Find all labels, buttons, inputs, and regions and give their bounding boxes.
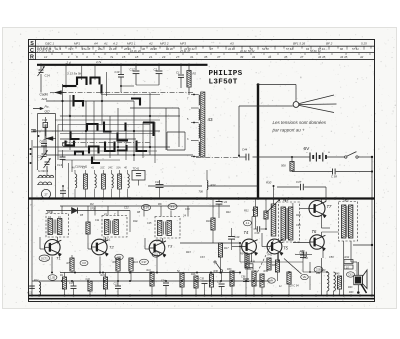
driver transformer BF1 box <box>279 198 300 242</box>
svg-text:R28: R28 <box>296 214 301 217</box>
switch contact m <box>143 123 154 137</box>
svg-text:BF1: BF1 <box>283 198 289 202</box>
on-off switch <box>345 152 374 159</box>
wire bus drop a <box>74 189 76 197</box>
wire left col <box>44 125 46 141</box>
wire BF2 to speaker <box>344 241 357 296</box>
voltage label 2.35 <box>314 267 323 273</box>
wire T5 collector <box>279 241 283 243</box>
resistor R40 <box>321 269 329 291</box>
coil S OSC1 label <box>38 169 49 173</box>
wire bus feeder 1 <box>66 65 95 88</box>
svg-text:R14: R14 <box>134 261 139 264</box>
svg-text:A3: A3 <box>229 41 234 45</box>
svg-text:8.: 8. <box>76 55 79 59</box>
junction dots left rail <box>30 135 40 164</box>
svg-text:PHILIPS: PHILIPS <box>209 70 243 78</box>
svg-text:C 24: C 24 <box>222 200 228 204</box>
resistor R37 <box>272 253 280 282</box>
svg-text:C 58: C 58 <box>331 175 337 179</box>
resistor 506 <box>281 156 294 172</box>
transistor T6 <box>310 229 326 251</box>
voltage label t2b <box>80 260 88 265</box>
label R8 <box>137 211 141 214</box>
svg-text:MF2 1: MF2 1 <box>127 41 136 45</box>
svg-text:R43: R43 <box>348 286 353 289</box>
svg-text:57 61: 57 61 <box>286 47 293 51</box>
svg-text:C49: C49 <box>235 235 240 239</box>
capacitor C19 <box>115 65 135 93</box>
capacitor C15 <box>69 281 77 296</box>
svg-text:C14: C14 <box>45 74 51 78</box>
label C22 <box>124 207 129 210</box>
svg-text:7a 7,: 7a 7, <box>68 47 74 51</box>
resistor R2 <box>187 65 197 95</box>
svg-text:C1: C1 <box>176 71 180 75</box>
voltage label t3b <box>140 259 149 265</box>
wire x310 vertical <box>309 262 311 272</box>
wire left col2 <box>46 166 48 176</box>
svg-text:VH: VH <box>303 275 307 279</box>
signal wire upper <box>60 205 230 207</box>
row label box C <box>29 46 36 54</box>
emitter row wire <box>60 272 240 274</box>
svg-text:T5: T5 <box>283 246 289 251</box>
note line 1 <box>273 120 327 125</box>
svg-text:T4: T4 <box>244 230 250 235</box>
svg-text:Cadre: Cadre <box>40 93 49 97</box>
voltage label 3.1 <box>168 204 177 210</box>
voltage label c61 <box>347 272 355 277</box>
antenna <box>293 95 336 113</box>
resistor 10box <box>344 265 353 269</box>
header table row line 3 <box>29 59 375 61</box>
svg-text:36: 36 <box>142 47 145 51</box>
voltage label OC71 <box>39 255 49 261</box>
svg-text:C11: C11 <box>95 219 100 222</box>
switch contact o <box>124 123 126 132</box>
svg-text:39 38: 39 38 <box>150 47 157 51</box>
switch contact n <box>137 141 148 152</box>
oscillator coil pack core <box>201 92 205 157</box>
wire T6 base <box>293 242 310 244</box>
svg-text:125 C 54: 125 C 54 <box>289 285 300 288</box>
rail junction dots <box>31 294 373 296</box>
svg-text:31.: 31. <box>190 55 194 59</box>
wire BF2 secondary right <box>353 244 373 246</box>
IF transformer MF2-1 <box>102 213 127 242</box>
label T4 voltage wire <box>252 217 256 240</box>
transistor T3 <box>149 240 173 257</box>
wire T6 emitter lower <box>321 258 323 296</box>
wire left inner vertical <box>31 140 33 296</box>
svg-text:C13: C13 <box>28 292 33 295</box>
wire AGC row <box>148 185 202 187</box>
IF transformer MF2-2 <box>155 214 186 243</box>
label R23 <box>186 251 191 254</box>
wire MF2-1 top <box>108 206 118 216</box>
svg-text:24: 24 <box>182 214 186 218</box>
resistor R45 <box>335 273 342 296</box>
battery 6V <box>306 151 330 162</box>
capacitor C56c <box>295 252 312 260</box>
oscillator coil winding 3 <box>199 124 200 138</box>
wire T6 collector <box>322 232 339 237</box>
svg-text:0.9: 0.9 <box>154 253 158 257</box>
label R28 <box>296 214 301 217</box>
switch contact j <box>89 147 99 154</box>
svg-text:R: R <box>30 55 34 61</box>
svg-text:T3: T3 <box>168 244 173 249</box>
resistor R18 <box>177 270 184 296</box>
svg-text:BF2: BF2 <box>344 198 350 202</box>
label C25 <box>147 222 152 225</box>
svg-text:3 13 5a 5b: 3 13 5a 5b <box>67 72 82 76</box>
svg-text:C56: C56 <box>241 276 246 279</box>
IF transformer MF1 <box>46 210 69 237</box>
label R5 <box>80 214 84 217</box>
header row S section labels <box>45 41 367 45</box>
switch contact i <box>105 142 115 152</box>
svg-text:C50: C50 <box>329 256 334 259</box>
svg-text:R12: R12 <box>34 279 39 282</box>
capacitor C52 <box>217 281 225 296</box>
main HT rail (thick vertical) <box>257 84 259 199</box>
wire IF strip v1 <box>94 206 96 216</box>
arrow Po GO <box>33 105 50 114</box>
svg-text:C38: C38 <box>255 231 260 235</box>
svg-text:54 58: 54 58 <box>262 47 269 51</box>
svg-text:R36: R36 <box>214 270 219 273</box>
wire <box>303 271 328 273</box>
wire T4 base <box>232 246 242 248</box>
capacitor C49 <box>228 228 240 250</box>
resistor R38 box <box>245 261 256 272</box>
svg-text:C30: C30 <box>185 208 190 211</box>
label 11 C56 <box>279 285 282 288</box>
ground rail lower <box>29 298 375 300</box>
svg-text:MF3: MF3 <box>180 41 186 45</box>
label 6V <box>304 146 311 152</box>
svg-text:4A: 4A <box>72 167 75 170</box>
svg-text:R39: R39 <box>264 270 269 273</box>
svg-text:27: 27 <box>44 193 48 197</box>
svg-text:VH: VH <box>270 279 274 283</box>
oscillator coil winding 2 <box>199 109 200 120</box>
wire BF1 primary top <box>285 199 293 208</box>
svg-text:R13: R13 <box>211 183 216 187</box>
potentiometer R30 track <box>266 181 276 237</box>
svg-text:1.05: 1.05 <box>50 277 55 280</box>
voltage label t3a <box>152 252 160 257</box>
svg-text:C46: C46 <box>296 224 301 227</box>
ground rail upper <box>29 295 375 297</box>
svg-text:5.25: 5.25 <box>361 41 367 45</box>
svg-text:R10: R10 <box>133 220 138 223</box>
resistor R9 emitter T2 <box>113 258 121 281</box>
ferrite rod circled label <box>41 189 50 198</box>
svg-text:C25: C25 <box>147 222 152 225</box>
switch contact f <box>71 132 80 140</box>
resistor R12 <box>34 279 41 296</box>
svg-text:0.8: 0.8 <box>82 262 86 265</box>
wire T2 base <box>88 243 93 249</box>
svg-text:C56: C56 <box>303 256 308 260</box>
diode detector <box>46 208 130 214</box>
svg-text:5.: 5. <box>98 55 101 59</box>
capacitor C16 <box>42 117 48 136</box>
bottom wiring dots <box>61 272 263 283</box>
svg-text:0.97: 0.97 <box>142 261 147 264</box>
label R31 <box>300 250 305 253</box>
switch contact bottom <box>214 261 223 281</box>
svg-text:GO: GO <box>45 110 50 114</box>
arrow left small <box>46 137 56 141</box>
wire T3 collector <box>162 238 164 244</box>
svg-text:44 46: 44 46 <box>228 47 235 51</box>
svg-text:R42: R42 <box>345 256 350 259</box>
capacitor C56b <box>241 276 249 296</box>
note line 2 <box>272 128 306 133</box>
variable capacitor C7 <box>44 158 51 172</box>
label 4 7a <box>96 60 102 64</box>
output transformer BF2 windings <box>342 205 353 238</box>
svg-text:R4: R4 <box>90 202 94 206</box>
capacitor C12b <box>60 185 66 197</box>
dashed gang line <box>254 240 274 279</box>
svg-text:57 61: 57 61 <box>352 47 359 51</box>
wire T7 emitter <box>322 215 331 229</box>
resistor R16 <box>206 199 215 244</box>
svg-text:Les tensions sont données: Les tensions sont données <box>273 120 327 125</box>
wire antenna left <box>239 105 293 107</box>
svg-text:58 60, 62: 58 60, 62 <box>310 49 321 53</box>
svg-text:34 36: 34 36 <box>166 47 173 51</box>
svg-text:BF1 5.26: BF1 5.26 <box>293 41 306 45</box>
capacitor C24m <box>216 199 228 219</box>
labels C18(A) 41 <box>75 165 88 169</box>
capacitor C24b <box>161 280 169 296</box>
header row R resistance numbers <box>44 53 370 59</box>
svg-text:C33: C33 <box>200 256 205 259</box>
switch contact g <box>87 124 98 131</box>
bus junction dots <box>40 197 374 200</box>
wire MF2-2 top <box>161 206 171 217</box>
svg-text:C22: C22 <box>124 207 129 210</box>
row label box R <box>29 53 36 61</box>
svg-text:R35: R35 <box>272 264 277 267</box>
switch contact d <box>74 95 84 107</box>
capacitor C6 <box>40 139 48 153</box>
row label box S <box>29 40 36 48</box>
resistor R31 <box>244 200 258 230</box>
svg-text:T6: T6 <box>312 229 318 234</box>
svg-text:R16: R16 <box>206 220 211 223</box>
switch contact k <box>118 133 129 141</box>
svg-text:R42: R42 <box>268 254 273 257</box>
terminal circle <box>62 141 70 146</box>
svg-text:35.: 35. <box>204 55 208 59</box>
voltage label vh <box>268 278 276 283</box>
resistor R36 <box>209 270 218 296</box>
transistor T5 <box>267 239 288 255</box>
arrow Cadre <box>40 91 67 101</box>
resistor R13 <box>199 170 216 197</box>
svg-text:C6: C6 <box>40 140 44 144</box>
capacitor C35 <box>200 278 208 296</box>
svg-text:MF2-1: MF2-1 <box>103 238 111 242</box>
wire top left drop <box>40 65 42 69</box>
svg-text:20a: 20a <box>97 47 103 51</box>
wire T3 emitter <box>156 257 158 274</box>
wire T2 collector <box>105 237 107 244</box>
switch contact e <box>100 85 102 94</box>
svg-text:47: 47 <box>210 47 213 51</box>
svg-text:7.: 7. <box>95 49 97 53</box>
wire T6 emitter <box>322 250 324 258</box>
svg-text:7a: 7a <box>110 55 114 59</box>
svg-text:C2: C2 <box>154 68 158 72</box>
header table row line 2 <box>29 52 375 54</box>
svg-text:L3F50T: L3F50T <box>209 79 238 87</box>
voltage label VH2 <box>301 274 309 279</box>
svg-text:43: 43 <box>208 117 214 122</box>
label 43 <box>208 117 214 122</box>
resistor R11 <box>147 269 155 296</box>
svg-text:706: 706 <box>199 190 204 194</box>
oscillator coil winding 1 <box>199 95 200 105</box>
svg-text:R11: R11 <box>147 269 152 272</box>
svg-text:R31: R31 <box>300 250 305 253</box>
wire T5 base <box>262 233 267 247</box>
resistor R35 <box>250 268 257 296</box>
svg-text:2 7 17, 5 7a, 3.: 2 7 17, 5 7a, 3. <box>36 49 55 53</box>
svg-text:MF2 2: MF2 2 <box>160 41 169 45</box>
voltage label t2 <box>115 254 123 260</box>
capacitor C37 <box>277 180 326 201</box>
svg-text:A1: A1 <box>103 41 108 45</box>
title PHILIPS <box>209 70 243 78</box>
capacitor C13 <box>28 286 35 295</box>
svg-text:+: + <box>328 151 330 155</box>
svg-text:44: 44 <box>268 55 272 59</box>
svg-text:15.: 15. <box>122 55 126 59</box>
switch contact labels 3 13 5a 5b <box>67 72 82 76</box>
svg-text:C35: C35 <box>200 278 205 281</box>
coil S OSC1 winding b <box>37 182 52 185</box>
label R10 <box>133 220 138 223</box>
label R42 <box>344 256 353 264</box>
svg-text:MF2-2: MF2-2 <box>156 239 164 243</box>
capacitor C58r <box>292 169 373 179</box>
wire IF strip v4 <box>129 211 131 233</box>
svg-text:506: 506 <box>281 164 286 168</box>
resistor R26 <box>191 273 198 296</box>
wire antenna feed <box>258 85 296 102</box>
label C46 <box>296 224 301 227</box>
transistor T2 <box>92 239 115 256</box>
svg-text:31A: 31A <box>116 167 121 170</box>
svg-text:C37: C37 <box>296 180 302 184</box>
svg-text:C24: C24 <box>161 280 166 283</box>
oscillator coil winding 4 <box>199 142 200 156</box>
svg-text:12: 12 <box>44 55 48 59</box>
svg-text:39: 39 <box>240 55 244 59</box>
chain line tuning <box>196 156 239 158</box>
wire VH diagonal <box>284 259 302 275</box>
svg-text:24C: 24C <box>107 167 113 170</box>
svg-text:MF1: MF1 <box>74 41 80 45</box>
svg-text:Po: Po <box>45 105 49 109</box>
wire T3 base <box>145 238 150 249</box>
wire battery left <box>253 156 311 158</box>
resistor R34 <box>240 253 249 282</box>
wire battery right <box>326 156 345 158</box>
svg-text:47: 47 <box>300 55 304 59</box>
switch contact l <box>117 145 127 151</box>
voltage label 4.1V <box>141 205 150 211</box>
wire BF2 primary top <box>345 199 347 202</box>
resistor R19 <box>101 273 108 296</box>
switch contact c <box>91 78 100 85</box>
wire T4 T5 emitters <box>252 253 279 263</box>
wire T1 base <box>40 237 45 249</box>
svg-text:66: 66 <box>340 47 343 51</box>
resistor R17 <box>218 243 229 273</box>
svg-text:TC41: TC41 <box>133 167 140 171</box>
svg-text:24 26: 24 26 <box>108 47 116 51</box>
resistor R27 <box>287 271 291 295</box>
wire pair right <box>101 72 160 96</box>
label R4 <box>90 202 96 211</box>
tuning gang box <box>38 114 56 171</box>
capacitor C44 <box>238 148 249 161</box>
svg-text:T7: T7 <box>327 204 333 209</box>
label R6 <box>158 202 162 206</box>
capacitor C8 <box>31 130 41 134</box>
capacitor C54 <box>299 250 306 272</box>
wire T1 emitter <box>51 257 53 274</box>
svg-text:42: 42 <box>360 55 364 59</box>
chain line lower <box>62 142 150 144</box>
svg-text:C19: C19 <box>115 70 120 74</box>
svg-text:A.2: A.2 <box>112 41 118 45</box>
wire AGC to pot <box>207 185 258 187</box>
svg-text:31C: 31C <box>100 167 105 170</box>
svg-text:R26: R26 <box>191 273 196 276</box>
svg-text:R19: R19 <box>101 274 106 277</box>
wire IF strip v2 <box>143 206 145 217</box>
wire <box>136 84 159 86</box>
chain line horizontal <box>50 92 193 94</box>
svg-text:R17: R17 <box>224 247 229 250</box>
switch contact r <box>92 157 100 164</box>
svg-text:C16: C16 <box>42 118 48 122</box>
wire right border drop <box>371 157 373 296</box>
trimmer TC41 <box>132 167 145 186</box>
driver transformer BF1 windings <box>281 207 293 240</box>
svg-text:3a, 5: 3a, 5 <box>55 47 61 51</box>
resistor C10 <box>86 278 93 296</box>
svg-text:15a 18: 15a 18 <box>82 47 91 51</box>
oscillator coil terminals <box>187 94 199 158</box>
label C50 <box>329 256 334 259</box>
svg-text:C 8: C 8 <box>37 130 42 134</box>
capacitor C38b <box>254 226 267 235</box>
junction dots converter <box>61 100 151 156</box>
svg-text:AH1: AH1 <box>41 97 48 101</box>
svg-text:R33: R33 <box>227 268 232 271</box>
